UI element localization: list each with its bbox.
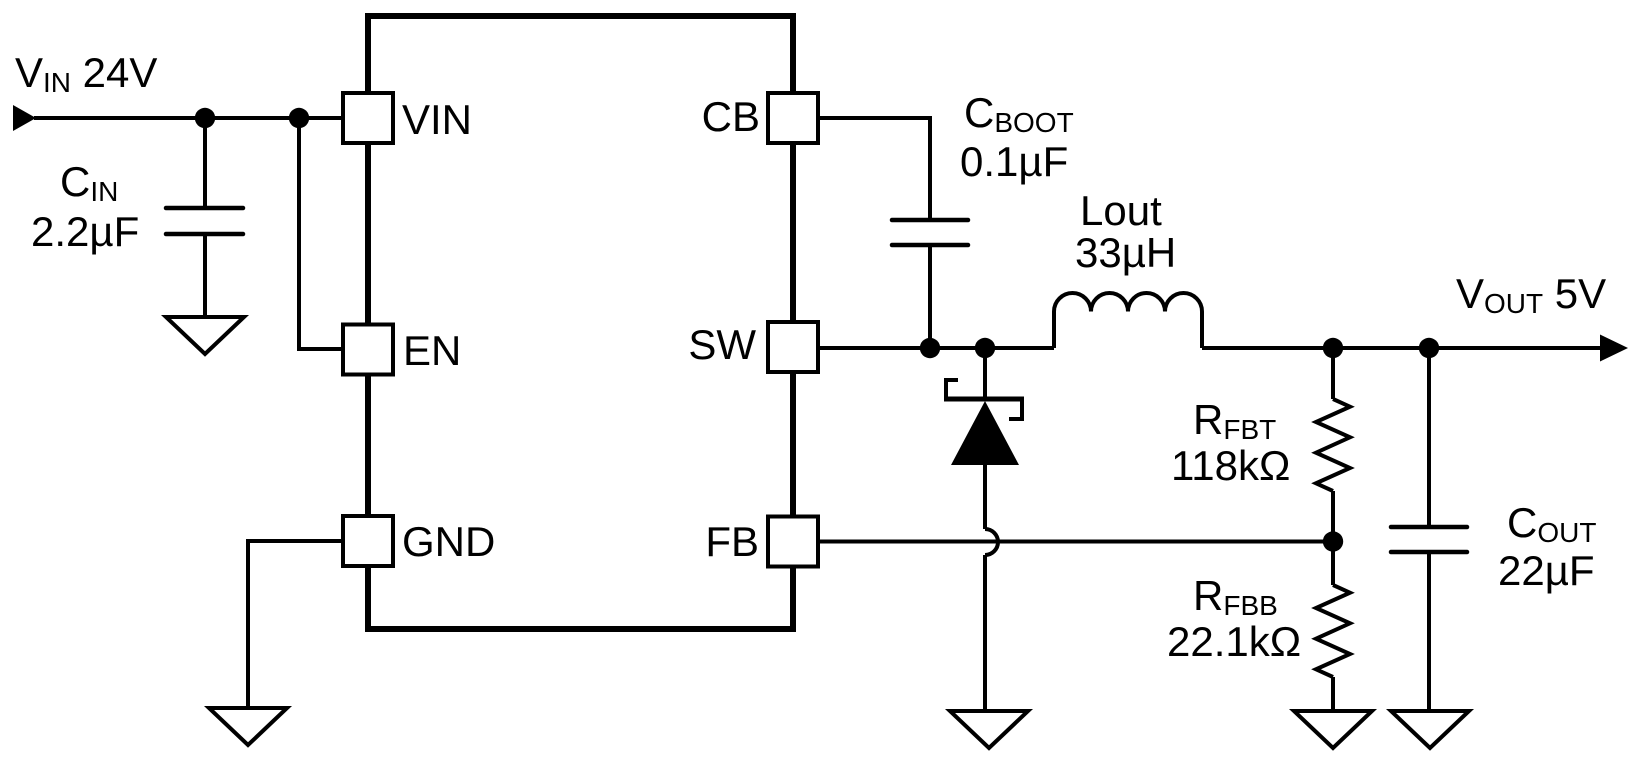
wire VOUT net: [1202, 346, 1600, 350]
pin FB: [705, 517, 818, 567]
wire: [983, 555, 987, 712]
node B junction dot: [289, 108, 309, 128]
resistor R_FBB: [1316, 541, 1350, 712]
pin EN: [343, 325, 461, 375]
node SW junction dot 1: [920, 338, 940, 358]
svg-text:EN: EN: [403, 327, 461, 374]
svg-text:RFBB: RFBB: [1193, 572, 1278, 621]
node VOUT junction dot 1: [1323, 338, 1343, 358]
pin CB: [702, 93, 818, 143]
svg-text:Lout: Lout: [1080, 187, 1162, 234]
wire: [817, 118, 930, 220]
svg-text:2.2µF: 2.2µF: [31, 208, 139, 255]
capacitor C_OUT label: [1498, 499, 1596, 594]
node SW junction dot 2: [975, 338, 995, 358]
op-amp U1: [368, 16, 793, 629]
wire SW net: [817, 346, 1054, 350]
capacitor C_BOOT label: [960, 89, 1074, 185]
svg-text:RFBT: RFBT: [1193, 396, 1276, 445]
node FB junction dot: [1323, 531, 1343, 551]
ground: [1391, 711, 1469, 748]
svg-text:CB: CB: [702, 93, 760, 140]
svg-text:CBOOT: CBOOT: [964, 89, 1074, 138]
pin GND: [343, 516, 495, 566]
capacitor C_BOOT: [892, 220, 968, 348]
capacitor C_IN: [166, 118, 243, 318]
node VOUT arrow: [1600, 335, 1628, 362]
node A junction dot: [195, 108, 215, 128]
ground: [950, 711, 1028, 748]
ground: [166, 317, 244, 354]
svg-text:COUT: COUT: [1507, 499, 1596, 548]
svg-text:33µH: 33µH: [1075, 229, 1176, 276]
node VOUT junction dot 2: [1419, 338, 1439, 358]
node VIN input arrow: [13, 105, 36, 131]
resistor R_FBT: [1316, 348, 1350, 541]
inductor Lout: [1054, 293, 1202, 348]
svg-text:0.1µF: 0.1µF: [960, 138, 1068, 185]
wire: [299, 118, 344, 349]
ground: [1294, 711, 1372, 748]
resistor R_FBT label: [1171, 396, 1290, 489]
svg-text:VIN: VIN: [402, 96, 472, 143]
wire hop over FB: [985, 529, 998, 555]
svg-text:FB: FB: [705, 518, 759, 565]
svg-text:22.1kΩ: 22.1kΩ: [1167, 618, 1301, 665]
pin VIN: [343, 93, 472, 143]
node VIN net: [34, 116, 344, 120]
wire GND pin: [248, 541, 344, 709]
resistor R_FBB label: [1167, 572, 1301, 665]
inductor Lout label: [1075, 187, 1176, 276]
pin SW: [688, 321, 818, 372]
capacitor C_IN label: [31, 158, 139, 255]
ground: [209, 708, 287, 745]
wire: [34, 116, 344, 120]
wire FB net: [817, 540, 1333, 544]
svg-text:SW: SW: [688, 321, 756, 368]
capacitor C_OUT: [1391, 348, 1467, 712]
svg-text:GND: GND: [402, 518, 495, 565]
svg-text:VIN 24V: VIN 24V: [15, 49, 157, 98]
svg-text:118kΩ: 118kΩ: [1171, 442, 1290, 489]
diode D1 schottky: [944, 348, 1024, 529]
svg-text:VOUT 5V: VOUT 5V: [1456, 270, 1606, 319]
svg-text:CIN: CIN: [60, 158, 118, 207]
svg-text:22µF: 22µF: [1498, 547, 1595, 594]
